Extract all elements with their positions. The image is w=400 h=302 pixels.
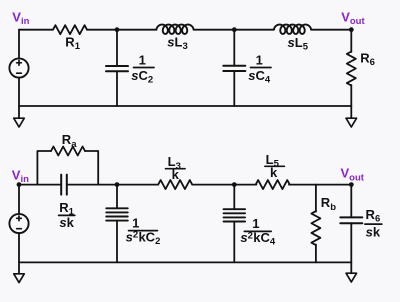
wire R6 to rail	[350, 85, 352, 106]
wire sL5 to Vout	[311, 29, 351, 31]
label Ra	[62, 132, 77, 150]
ground (bottom right)	[346, 273, 357, 282]
wire D4 to rail	[233, 222, 235, 263]
ground (top left)	[14, 118, 25, 127]
node D (bottom, D4 tap)	[232, 182, 237, 187]
wire Vin to cap R1/sk	[19, 184, 61, 186]
svg-text:1: 1	[252, 216, 259, 231]
svg-text:sk: sk	[59, 215, 74, 230]
node Vin (bottom)	[17, 182, 22, 187]
label Vin (bottom)	[12, 167, 29, 185]
svg-text:k: k	[270, 165, 278, 180]
wire Ra branch left	[37, 151, 51, 185]
node C (bottom, D2 tap)	[115, 182, 120, 187]
label Vout (bottom)	[341, 166, 365, 184]
fdnr D4 (1/s^2 k C4)	[224, 209, 246, 221]
capacitor C4	[223, 66, 245, 71]
wire cap to node C	[67, 184, 158, 186]
resistor R1	[53, 25, 87, 34]
wire R1 to sL3	[87, 29, 157, 31]
wire cap to rail (bottom right)	[350, 223, 352, 262]
wire rail to left ground	[18, 106, 20, 118]
wire Vout to cap R6/sk	[350, 185, 352, 218]
label sL3	[167, 35, 187, 53]
wire rail to ground (bottom right)	[350, 262, 352, 273]
wire C4 to rail	[233, 71, 235, 106]
label R1	[65, 34, 80, 52]
resistor R6	[347, 52, 356, 86]
svg-text:1: 1	[256, 53, 263, 68]
node A (top, C2 tap)	[115, 27, 120, 32]
wire Vout to R6	[350, 30, 352, 52]
capacitor R1/sk (series)	[61, 175, 67, 195]
svg-text:1: 1	[132, 215, 139, 230]
resistor Ra	[51, 147, 85, 156]
wire D2 to rail	[116, 221, 118, 263]
wire Vin to R1	[19, 29, 53, 31]
wire node B to C4	[233, 30, 235, 66]
wire Vout line to Rb tap	[315, 185, 317, 212]
node Vout (top)	[349, 27, 354, 32]
label 1/s2kC4	[240, 216, 275, 247]
capacitor C2	[106, 66, 128, 71]
svg-text:1: 1	[139, 53, 146, 68]
voltage source V1 (top)	[9, 58, 28, 77]
label R6	[360, 51, 375, 69]
wire Vin down to source (bottom)	[18, 185, 20, 214]
svg-text:k: k	[172, 167, 180, 182]
capacitor R6/sk	[340, 217, 362, 223]
label 1/sC4	[248, 53, 271, 86]
label Vin (top)	[12, 9, 29, 27]
wire source to rail	[18, 78, 20, 106]
resistor Rb	[311, 211, 320, 245]
wire Vin down to source	[18, 30, 20, 59]
wire L3/k to node D	[192, 184, 256, 186]
label 1/s2kC2	[126, 215, 161, 247]
wire top ground rail	[19, 105, 351, 107]
label R1/sk	[59, 200, 75, 230]
wire source to rail (bottom)	[18, 233, 20, 262]
resistor L3/k	[158, 180, 192, 189]
wire node A to C2	[116, 30, 118, 66]
label Rb	[321, 195, 336, 213]
svg-text:sk: sk	[366, 224, 381, 239]
wire node D to D4	[233, 185, 235, 210]
label Vout (top)	[341, 9, 365, 27]
node Vout (bottom)	[349, 182, 354, 187]
wire Ra branch right	[85, 151, 98, 185]
wire node C to D2	[116, 185, 118, 209]
label L5/k	[265, 152, 285, 180]
label sL5	[288, 35, 309, 53]
inductor sL3	[157, 25, 194, 34]
inductor sL5	[274, 25, 311, 34]
voltage source V1 (bottom)	[9, 214, 28, 233]
wire L5/k to Vout (bottom)	[289, 184, 351, 186]
fdnr D2 (1/s^2 k C2)	[106, 208, 128, 220]
wire rail to right ground	[350, 106, 352, 118]
wire rail to ground (bottom left)	[18, 262, 20, 273]
label L3/k	[166, 154, 186, 182]
wire Rb to rail	[315, 245, 317, 263]
label R6/sk	[365, 207, 382, 239]
resistor L5/k	[256, 180, 290, 189]
wire bottom ground rail	[19, 261, 351, 263]
ground (bottom left)	[14, 274, 25, 283]
label 1/sC2	[131, 53, 154, 86]
ground (top right)	[346, 118, 357, 127]
wire C2 to rail	[116, 71, 118, 106]
wire sL3 to sL5	[194, 29, 275, 31]
node B (top, C4 tap)	[232, 27, 237, 32]
